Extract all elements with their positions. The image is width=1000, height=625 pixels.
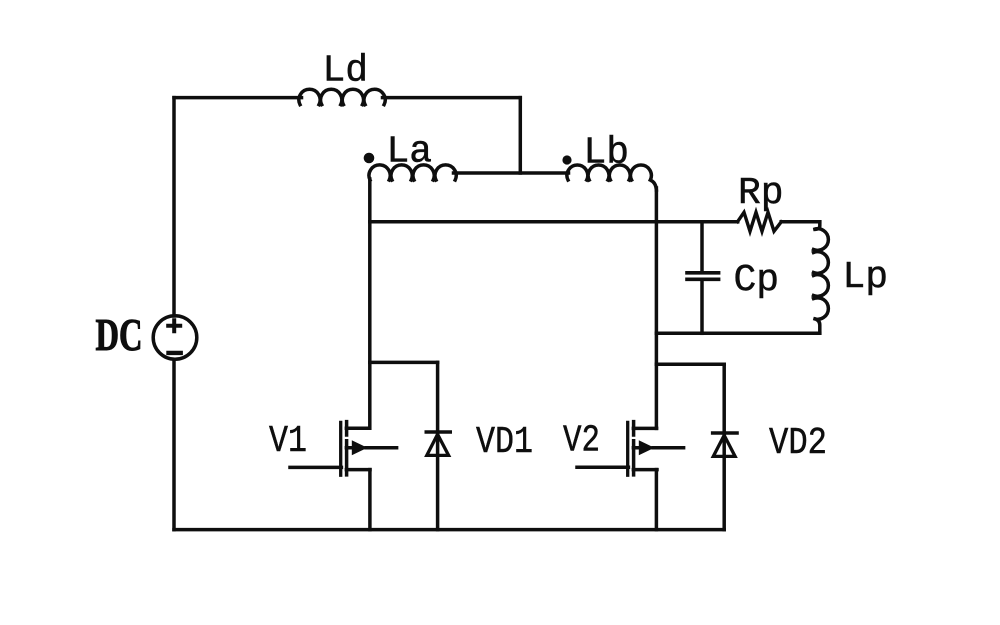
svg-text:Lb: Lb	[584, 132, 630, 175]
wire bottom horizontal	[174, 528, 724, 532]
svg-text:VD2: VD2	[769, 422, 827, 465]
diode VD2 lead wire (vertical through symbol)	[722, 364, 726, 529]
transistor V2 channel segments	[632, 422, 636, 475]
capacitor Cp top lead	[700, 222, 704, 271]
transistor V1 gate bar	[339, 422, 342, 475]
wire second horizontal (load line)	[370, 220, 738, 224]
svg-text:Ld: Ld	[323, 50, 369, 93]
wire vertical from top wire down to La-Lb line	[519, 98, 523, 173]
svg-text:V1: V1	[269, 420, 307, 463]
inductor Lp	[814, 222, 829, 333]
diode VD2 cathode bar	[713, 431, 737, 435]
DC source plus	[168, 320, 180, 331]
node dot Lb	[562, 155, 571, 164]
svg-text:DC: DC	[96, 310, 143, 360]
wire right rail from Lb down to V2 drain	[655, 188, 659, 428]
transistor V2 gate bar	[626, 422, 629, 475]
wire V1-VD1 branch top	[370, 361, 438, 365]
transistor V2 source vertical	[655, 470, 659, 530]
capacitor Cp plates	[687, 273, 719, 280]
DC source minus	[169, 351, 181, 355]
transistor V1 gate lead	[290, 466, 341, 470]
wire RLC bottom horizontal	[656, 332, 819, 336]
wire VD2 branch top	[656, 362, 724, 366]
node dot La	[364, 153, 375, 164]
svg-text:Lp: Lp	[843, 256, 889, 299]
DC source circle	[153, 316, 197, 360]
svg-text:V2: V2	[563, 420, 600, 463]
resistor Rp	[738, 212, 782, 231]
inductor La	[369, 165, 456, 180]
transistor V2 body arrow	[633, 446, 683, 450]
capacitor Cp bottom lead	[700, 281, 704, 333]
diode VD1 triangle	[427, 434, 449, 455]
wire top left horizontal	[174, 96, 302, 100]
transistor V2 drain lead	[633, 427, 656, 431]
svg-text:Cp: Cp	[734, 259, 780, 302]
transistor V1 source lead	[346, 468, 370, 472]
svg-text:VD1: VD1	[476, 421, 533, 464]
diode VD1 cathode bar	[426, 430, 450, 434]
transistor V1 body arrow	[346, 446, 396, 450]
inductor Ld	[299, 89, 385, 104]
wire left rail from La down to V1 drain	[368, 179, 372, 428]
wire from Rp to Lp	[781, 220, 820, 224]
wire left rail bottom (source to bottom wire)	[172, 359, 176, 529]
wire top right horizontal	[383, 96, 521, 100]
transistor V1 source vertical	[368, 470, 372, 530]
diode VD2 triangle	[713, 435, 735, 456]
wire left rail top (source to top wire)	[172, 98, 176, 316]
diode VD1 lead wire (vertical through symbol)	[436, 362, 440, 529]
inductor Lb	[567, 165, 656, 190]
transistor V2 source lead	[633, 468, 657, 472]
wire between La and Lb	[454, 171, 569, 175]
transistor V1 channel segments	[345, 422, 349, 475]
svg-text:La: La	[387, 131, 433, 174]
svg-text:Rp: Rp	[738, 172, 784, 215]
transistor V1 drain lead	[346, 426, 369, 430]
transistor V2 gate lead	[577, 465, 628, 469]
